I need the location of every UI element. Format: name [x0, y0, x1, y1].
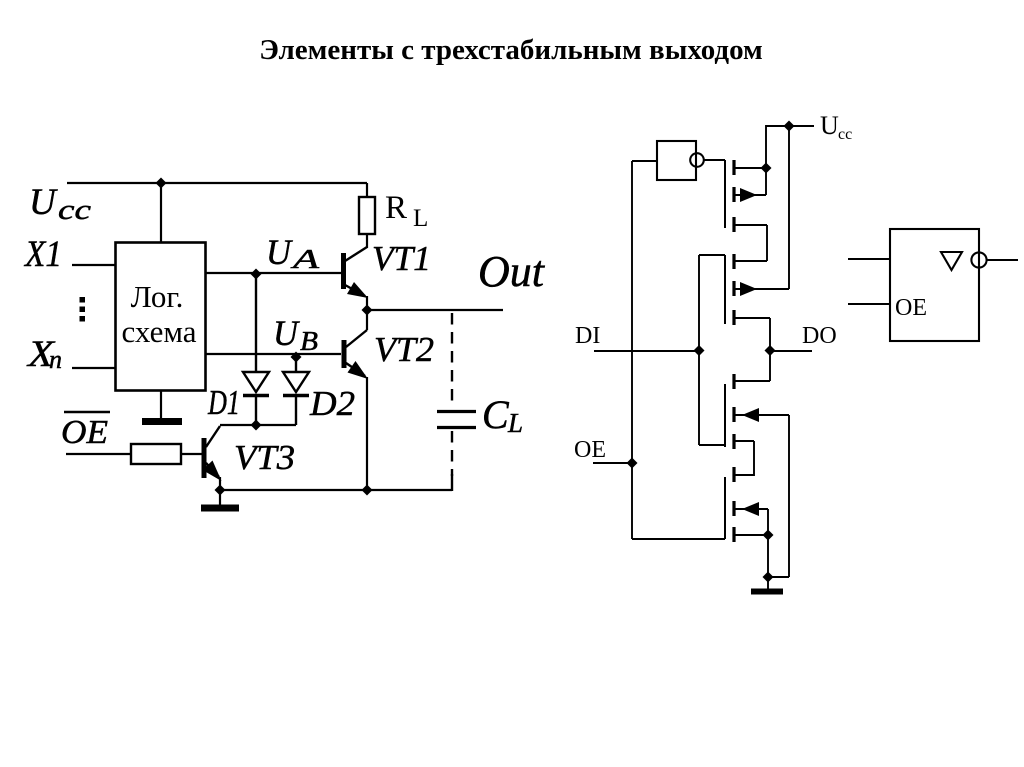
- inversion circle: [971, 252, 986, 267]
- wire OE to M4 gate: [632, 538, 725, 540]
- diode D2: [283, 357, 309, 425]
- capacitor CL: [437, 412, 476, 428]
- transistor VT1: [344, 247, 368, 296]
- svg-text:Лог.: Лог.: [131, 279, 184, 314]
- wire DI to M3 gate: [699, 444, 725, 446]
- svg-text:Элементы с трехстабильным выхо: Элементы с трехстабильным выходом: [259, 34, 763, 66]
- svg-text:Out: Out: [478, 247, 546, 296]
- logic box "Лог. схема": [116, 243, 206, 391]
- node dot Out: [362, 305, 373, 316]
- node dot Ucc terminal: [784, 121, 795, 132]
- ground under VT3: [201, 505, 239, 512]
- wire VT3 emitter to ground node: [219, 477, 221, 506]
- wire Ucc top rail: [67, 182, 367, 184]
- svg-text:L: L: [507, 408, 523, 438]
- node dot M1 drain / Ucc: [761, 163, 772, 174]
- label dots between inputs: [80, 297, 86, 303]
- ground symbol middle circuit: [751, 589, 783, 595]
- n-channel MOSFET M4: [725, 467, 768, 542]
- svg-text:DO: DO: [802, 323, 837, 349]
- wire Ucc down to M2 substrate: [788, 126, 790, 289]
- transistor VT3: [204, 426, 220, 478]
- node dot D1 bottom: [251, 420, 262, 431]
- svg-text:n: n: [49, 345, 62, 374]
- node dot UB junction: [291, 352, 302, 363]
- wire M3 source to M4 drain: [735, 441, 754, 475]
- wire M1 source to M2 drain: [766, 225, 768, 261]
- p-channel MOSFET M2: [725, 254, 789, 325]
- svg-text:DI: DI: [575, 323, 600, 349]
- inverter box U1: [657, 141, 696, 180]
- ground under logic box: [142, 418, 182, 425]
- wire inverter output to M1 gate: [704, 159, 725, 161]
- M1 substrate arrow: [740, 188, 757, 202]
- wire inverter input: [632, 160, 657, 162]
- wire VT2 emitter down to bottom rail: [366, 377, 368, 490]
- transistor VT2: [344, 330, 367, 376]
- wire OE input: [66, 453, 131, 455]
- wire output: [987, 259, 1018, 261]
- svg-text:U: U: [820, 111, 839, 140]
- wire ground joint: [768, 576, 789, 578]
- wire X1 input: [72, 264, 115, 266]
- svg-text:OE: OE: [574, 437, 606, 463]
- wire OE input: [593, 462, 632, 464]
- wire Out: [367, 309, 503, 311]
- svg-text:схема: схема: [121, 314, 196, 349]
- p-channel MOSFET M1: [725, 160, 767, 232]
- svg-text:C: C: [482, 392, 510, 437]
- svg-text:VT1: VT1: [372, 239, 431, 278]
- svg-text:U: U: [266, 232, 293, 272]
- node dot DO: [765, 345, 776, 356]
- svg-text:U: U: [273, 313, 300, 353]
- svg-text:L: L: [413, 205, 428, 232]
- svg-text:VT2: VT2: [374, 330, 434, 369]
- svg-text:R: R: [385, 190, 407, 226]
- wire DI to M2 gate: [699, 254, 725, 256]
- svg-text:cc: cc: [838, 126, 852, 143]
- LEFT CIRCUIT: [67, 183, 367, 420]
- n-channel MOSFET M3: [725, 374, 789, 449]
- svg-text:B: B: [300, 326, 318, 356]
- wire VT1 emitter to out node: [366, 296, 368, 330]
- resistor at VT3 base: [131, 444, 181, 464]
- wire M2 source to DO node: [769, 318, 771, 381]
- svg-text:D2: D2: [309, 384, 355, 423]
- wire Ucc lead: [789, 125, 814, 127]
- node dot UA junction: [251, 269, 262, 280]
- capacitor CL dashed link bottom: [451, 431, 453, 476]
- M3 substrate arrow: [742, 408, 759, 422]
- wire dashed link to bottom rail: [451, 474, 453, 491]
- wire DI vertical to M2 and M3 gates: [698, 255, 700, 445]
- wire node UA: [206, 272, 341, 274]
- MIDDLE CMOS CIRCUIT: [593, 126, 814, 539]
- capacitor CL dashed link top: [451, 313, 453, 408]
- svg-text:D1: D1: [207, 383, 240, 422]
- wire logic box bottom to ground: [160, 391, 162, 420]
- wire bottom rail: [220, 489, 452, 491]
- wire Ucc corner to M1 drain: [766, 126, 789, 170]
- wire ground stem: [767, 577, 769, 589]
- diode D1: [243, 274, 269, 425]
- wire DI input: [594, 350, 699, 352]
- svg-text:cc: cc: [58, 195, 92, 226]
- buffer box: [890, 229, 979, 341]
- node dot VT3 emitter: [215, 485, 226, 496]
- svg-text:OE: OE: [895, 295, 927, 321]
- wire OE vertical bus: [631, 161, 633, 539]
- wire DO output: [770, 350, 812, 352]
- M2 substrate arrow: [740, 282, 757, 296]
- svg-text:U: U: [29, 182, 58, 223]
- node dot DI: [694, 345, 705, 356]
- wire input data: [848, 258, 890, 260]
- node dot M4 source: [763, 530, 774, 541]
- node dot OE bus: [627, 458, 638, 469]
- svg-text:X1: X1: [23, 234, 62, 275]
- node dot on Ucc rail: [156, 178, 167, 189]
- RIGHT BUFFER SYMBOL: [848, 229, 1018, 341]
- wire Xn input: [72, 367, 115, 369]
- node dot bottom rail / VT2 emitter: [362, 485, 373, 496]
- wire resistor to VT3 base: [181, 453, 202, 455]
- wire node UB: [206, 353, 341, 355]
- wire diode bottoms: [220, 424, 296, 426]
- svg-text:OE: OE: [61, 414, 108, 451]
- resistor RL: [359, 183, 375, 248]
- svg-text:A: A: [290, 244, 320, 274]
- wire M4 substrate/source to ground: [767, 509, 769, 577]
- inverter output circle: [690, 153, 704, 167]
- tri-state triangle mark: [941, 252, 962, 270]
- node dot ground junction: [763, 572, 774, 583]
- wire input OE: [848, 303, 890, 305]
- wire M3 substrate to ground bus: [788, 415, 790, 577]
- wire rail to logic box top: [160, 183, 162, 242]
- M4 substrate arrow: [742, 502, 759, 516]
- svg-text:VT3: VT3: [234, 438, 295, 477]
